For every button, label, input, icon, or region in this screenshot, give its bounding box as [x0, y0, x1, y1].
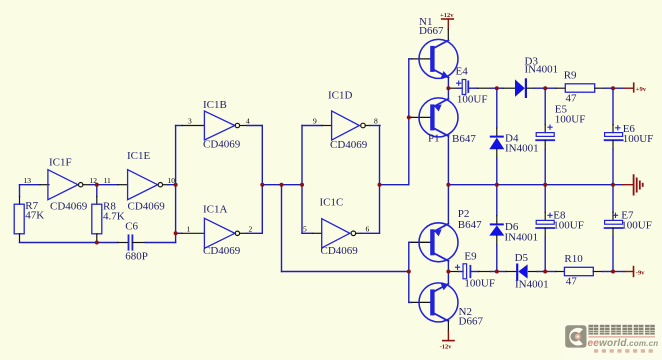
svg-text:CD4069: CD4069 [203, 245, 241, 257]
wire output bottom to E9 [448, 271, 463, 273]
svg-text:CD4069: CD4069 [330, 139, 368, 151]
wire drive rail to base column [380, 184, 409, 186]
svg-text:CD4069: CD4069 [321, 245, 359, 257]
ground symbol [623, 175, 643, 194]
node junction E7 top [611, 183, 615, 187]
resistor R9 [565, 84, 594, 92]
wire E7 column [612, 185, 614, 221]
svg-text:100UF: 100UF [623, 133, 654, 145]
node junction R8 bottom [95, 241, 99, 245]
wire IC1A output [240, 232, 263, 234]
wire N2 emitter up [447, 272, 449, 284]
wire left column down to R7 [19, 185, 21, 205]
svg-text:-12v: -12v [440, 344, 453, 351]
node junction E6 top [611, 86, 615, 90]
node junction P1 base [407, 115, 411, 119]
op-amp U5: inverter IC1D [332, 111, 366, 140]
wire IC1C output [356, 232, 380, 234]
wire R7 bottom to rail [19, 234, 21, 243]
node junction D6 top [495, 183, 499, 187]
svg-text:IC1B: IC1B [203, 99, 227, 111]
svg-text:+12v: +12v [440, 12, 454, 19]
svg-text:100UF: 100UF [621, 220, 652, 232]
wire D5 anode to E8 node [529, 271, 546, 273]
diode D4 IN4001 vertical [489, 128, 504, 185]
wire E5 bottom to ground rail [544, 140, 546, 185]
svg-text:E9: E9 [464, 251, 477, 263]
svg-text:C6: C6 [125, 221, 138, 233]
svg-text:IC1C: IC1C [320, 197, 344, 209]
op-amp U2: inverter IC1E [128, 170, 163, 200]
node feedback junction [174, 183, 178, 187]
power -9v terminal [613, 267, 645, 277]
diode D5 IN4001 pointing left [517, 264, 527, 279]
svg-text:6: 6 [366, 225, 370, 234]
wire IC1E input stub [118, 184, 128, 186]
wire to R9 [545, 87, 565, 89]
svg-text:+9v: +9v [636, 86, 647, 93]
wire P2 collector down [447, 261, 449, 272]
svg-text:B647: B647 [452, 133, 476, 145]
node junction lower bases [407, 270, 411, 274]
svg-text:IN4001: IN4001 [505, 232, 539, 244]
capacitor C2: E5 100UF polarized [536, 125, 554, 140]
wire R8 bottom to rail [96, 234, 98, 243]
wire output top to E4 [448, 87, 462, 89]
svg-text:R10: R10 [564, 253, 583, 265]
node junction D4 top [495, 86, 499, 90]
wire junction down to R8 [96, 185, 98, 205]
wire N1 base [409, 58, 431, 60]
svg-text:1: 1 [187, 225, 191, 234]
wire paralleling column IC1D IC1C outputs [379, 126, 381, 234]
node junction E5 top [543, 86, 547, 90]
watermark eeworld logo block [561, 321, 662, 360]
wire P2 emitter up to mid [447, 185, 449, 224]
wire D4 column [496, 88, 498, 128]
svg-text:D667: D667 [459, 316, 484, 328]
wire paralleling column IC1B IC1A outputs [261, 126, 263, 234]
svg-text:9: 9 [313, 117, 317, 126]
svg-text:P1: P1 [428, 133, 440, 145]
svg-text:2: 2 [249, 225, 253, 234]
capacitor C5: E8 100UF polarized [536, 213, 554, 228]
wire P1 base [409, 116, 431, 118]
wire to D5 cathode [497, 271, 516, 273]
wire IC1D output [365, 125, 380, 127]
wire base column upper [408, 59, 410, 185]
node junction drive [378, 183, 382, 187]
wire D3 anode stub [497, 87, 515, 89]
svg-text:IC1D: IC1D [328, 90, 353, 102]
wire E8 column [544, 185, 546, 221]
svg-text:IC1A: IC1A [203, 204, 228, 216]
power -12V symbol [440, 321, 454, 351]
svg-text:100UF: 100UF [457, 94, 488, 106]
svg-text:-9v: -9v [636, 270, 645, 277]
node junction input column [300, 183, 304, 187]
wire lower drive column [281, 185, 283, 272]
svg-text:D667: D667 [419, 25, 444, 37]
node junction output top [446, 86, 450, 90]
power +12V symbol [440, 12, 454, 39]
wire P2 base [409, 241, 431, 243]
op-amp U1: inverter IC1F [48, 170, 83, 200]
op-amp U3: inverter IC1B [204, 111, 239, 140]
svg-text:CD4069: CD4069 [128, 201, 166, 213]
svg-text:IC1F: IC1F [49, 157, 72, 169]
svg-text:CD4069: CD4069 [203, 139, 241, 151]
wire E5 column [544, 88, 546, 132]
node junction IC1A input [174, 231, 178, 235]
node junction E8 top [543, 183, 547, 187]
node junction outputs [260, 183, 264, 187]
svg-text:IN4001: IN4001 [525, 64, 559, 76]
wire E9 right to D6 node [470, 271, 496, 273]
wire IC1E output to feedback node [163, 184, 176, 186]
svg-text:IN4001: IN4001 [515, 279, 549, 291]
wire ground rail [448, 184, 622, 186]
transistor Q4: N2 D667 NPN [419, 283, 458, 322]
svg-text:B647: B647 [458, 219, 482, 231]
resistor R7 [14, 204, 24, 234]
wire to R10 [545, 271, 564, 273]
node junction mid point [446, 183, 450, 187]
wire E7 bottom [612, 228, 614, 272]
wire IC1A input [176, 232, 205, 234]
wire feedback column [175, 126, 177, 243]
svg-text:D5: D5 [515, 252, 529, 264]
svg-text:5: 5 [303, 225, 307, 234]
op-amp U4: inverter IC1A [204, 218, 239, 248]
svg-text:3: 3 [188, 117, 192, 126]
node junction E8 bottom [543, 270, 547, 274]
node junction E7 bottom [611, 270, 615, 274]
resistor R8 [92, 204, 102, 234]
wire IC1B output [240, 125, 263, 127]
svg-text:R9: R9 [564, 70, 577, 82]
wire C6 right to feedback column [132, 242, 175, 244]
wire to IC1B input [176, 125, 205, 127]
node junction at R8 top [95, 183, 99, 187]
svg-text:4.7K: 4.7K [103, 210, 125, 222]
transistor Q2: P1 B647 PNP [419, 98, 458, 137]
svg-text:13: 13 [24, 176, 32, 185]
wire mid rail to IC1D IC1C inputs [262, 184, 302, 186]
svg-text:eeworld.com.cn: eeworld.com.cn [588, 338, 659, 349]
wire E4 right to D4 node [468, 87, 497, 89]
wire E6 column [612, 88, 614, 132]
op-amp U6: inverter IC1C [322, 219, 356, 248]
wire R10 right to -9v node [593, 271, 613, 273]
svg-text:47: 47 [566, 93, 578, 105]
wire E8 bottom [544, 228, 546, 272]
wire input column IC1D IC1C [301, 126, 303, 234]
transistor Q1: N1 D667 NPN [419, 39, 458, 78]
svg-text:11: 11 [104, 176, 111, 185]
diode D3 IN4001 [515, 79, 526, 97]
wire IC1C input [302, 232, 322, 234]
svg-text:E4: E4 [456, 66, 469, 78]
capacitor C1: E4 100UF polarized [457, 80, 469, 95]
wire bottom rail to C6 left [20, 242, 129, 244]
svg-text:100UF: 100UF [553, 220, 584, 232]
resistor R10 [564, 267, 593, 275]
wire E6 bottom to ground rail [612, 140, 614, 185]
svg-text:4: 4 [246, 117, 250, 126]
wire base column lower [408, 242, 410, 302]
svg-text:47: 47 [566, 276, 578, 288]
wire N2 base [409, 301, 431, 303]
wire D6 column [496, 185, 498, 216]
wire lower drive line to output bases [282, 271, 409, 273]
capacitor C3: C6 plates [129, 235, 133, 249]
svg-text:100UF: 100UF [464, 278, 495, 290]
node junction D6 bottom [495, 270, 499, 274]
wire D3 cathode to E5 node [527, 87, 545, 89]
wire IC1D input [302, 125, 332, 127]
node junction lower drive tap [280, 183, 284, 187]
node junction output bottom [446, 270, 450, 274]
capacitor C6b: E9 100UF polarized [455, 264, 470, 279]
wire P1 emitter up [447, 88, 449, 99]
wire N1 emitter down [447, 78, 449, 89]
svg-text:680P: 680P [125, 250, 148, 262]
diode D6 IN4001 vertical [489, 216, 504, 272]
power +9v terminal [613, 83, 647, 93]
svg-text:IN4001: IN4001 [505, 143, 539, 155]
svg-text:CD4069: CD4069 [50, 201, 88, 213]
svg-text:IC1E: IC1E [127, 150, 151, 162]
wire P1 collector down to mid [447, 136, 449, 185]
svg-text:100UF: 100UF [555, 114, 586, 126]
wire input to IC1F pin 13 [20, 184, 50, 186]
transistor Q3: P2 B647 PNP [419, 223, 458, 262]
capacitor C7: E7 100UF polarized [605, 213, 623, 228]
svg-text:47K: 47K [25, 210, 44, 222]
wire IC1F output to junction [83, 184, 118, 186]
capacitor C4: E6 100UF polarized [605, 126, 623, 141]
wire R9 right to +9v node [595, 87, 613, 89]
svg-text:8: 8 [374, 117, 378, 126]
